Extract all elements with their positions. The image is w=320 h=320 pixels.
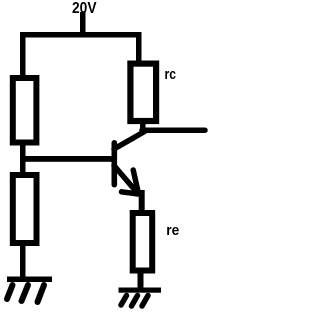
wire top rail (20, 32, 142, 38)
transistor Q1 emitter line (114, 166, 137, 193)
wire re to ground (138, 272, 144, 289)
wire R2 to ground (20, 244, 26, 279)
wire right vertical rail to rc (136, 32, 142, 64)
wire R1 to R2 (base node stub) (20, 144, 26, 173)
resistor R1 (upper bias divider) (13, 78, 37, 143)
transistor Q1 emitter arrowhead barb lower (122, 192, 139, 194)
wire output from collector (142, 127, 205, 133)
transistor Q1 emitter arrowhead barb upper (133, 170, 138, 193)
resistor R2 (lower bias divider) (13, 175, 37, 243)
resistor rc (collector) (130, 64, 156, 121)
ground (left) (7, 277, 52, 303)
wire left vertical rail to R1 (20, 32, 26, 78)
svg-text:rc: rc (165, 66, 177, 83)
transistor Q1 collector line (114, 132, 145, 150)
wire base (node to transistor base) (20, 156, 117, 162)
ground (right) (119, 288, 162, 307)
resistor re (emitter) (133, 213, 153, 271)
wire rc to collector node (140, 121, 146, 132)
wire emitter to re (139, 190, 145, 212)
transistor Q1 base bar (112, 143, 118, 185)
wire 20V stub to top rail (80, 12, 86, 35)
svg-text:re: re (166, 222, 179, 239)
